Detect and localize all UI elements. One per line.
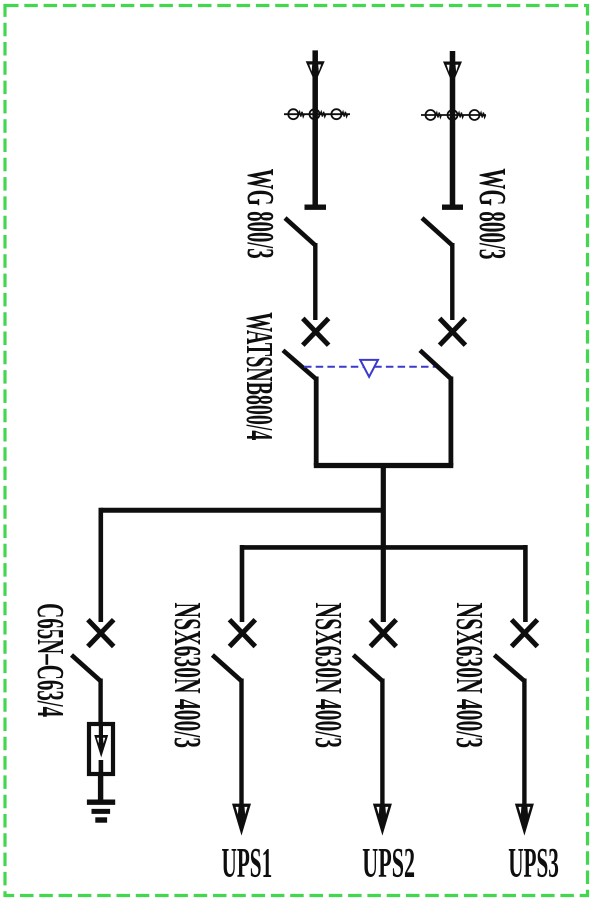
feeder A isolating switch QA blade — [285, 218, 315, 245]
SPD branch switch blade — [72, 655, 101, 681]
wire feeder B switch to breaker — [450, 243, 454, 320]
UPS1 branch drop wire — [240, 545, 245, 622]
SPD branch drop wire — [99, 508, 104, 622]
UPS1 breaker X — [230, 620, 256, 647]
feeder B isolating switch QB blade — [422, 218, 452, 245]
svg-text:C65N–C63/4: C65N–C63/4 — [29, 603, 71, 717]
ATS left blade — [283, 350, 316, 379]
svg-text:WG 800/3: WG 800/3 — [471, 168, 513, 259]
svg-text:UPS3: UPS3 — [508, 841, 559, 887]
UPS2 feed wire and arrow — [373, 679, 392, 836]
wire feeder A switch to breaker — [313, 243, 317, 320]
UPS3 breaker X — [512, 620, 538, 647]
UPS3 branch drop wire — [523, 545, 528, 622]
SPD arrow inside box — [94, 724, 108, 774]
UPS2 branch breaker X — [370, 620, 396, 647]
svg-text:WG 800/3: WG 800/3 — [239, 169, 281, 259]
svg-text:UPS2: UPS2 — [362, 841, 415, 887]
feeder B supply terminal T-bar — [442, 205, 463, 210]
svg-text:UPS1: UPS1 — [222, 841, 273, 887]
feeder A incoming arrow — [306, 50, 325, 207]
feeder B metering CTs (three circles with squiggles) — [421, 110, 486, 120]
wire ATS left to bus — [314, 377, 319, 466]
ground symbol — [87, 802, 115, 820]
SPD (surge arrester) box — [89, 724, 113, 774]
wire SPD box to ground — [98, 774, 103, 801]
bus drop wire (center) — [381, 466, 386, 623]
ATS indicator triangle (blue) — [360, 360, 378, 377]
distribution line 1 (to SPD branch) — [101, 508, 384, 513]
wire ATS right to bus — [448, 377, 453, 466]
UPS3 switch blade — [494, 655, 524, 681]
ATS right blade — [420, 350, 451, 379]
feeder A supply terminal T-bar — [305, 205, 327, 210]
svg-text:NSX630N 400/3: NSX630N 400/3 — [166, 603, 208, 749]
UPS1 feed wire and arrow — [232, 679, 251, 836]
UPS3 feed wire and arrow — [515, 679, 534, 836]
bus bar — [314, 463, 454, 468]
svg-text:WATSNB800/4: WATSNB800/4 — [238, 312, 280, 440]
svg-text:NSX630N 400/3: NSX630N 400/3 — [307, 603, 349, 749]
UPS2 switch blade — [353, 655, 382, 681]
feeder A metering CTs (three circles with squiggles) — [284, 109, 350, 119]
feeder B incoming arrow — [443, 51, 462, 207]
SPD branch breaker X — [88, 620, 114, 647]
wire blade to SPD box — [98, 679, 102, 727]
ATS linkage dashed line (blue) — [304, 366, 439, 368]
distribution line 2 (to UPS1/UPS3) — [242, 545, 525, 550]
UPS1 switch blade — [212, 655, 241, 681]
svg-text:NSX630N 400/3: NSX630N 400/3 — [448, 603, 490, 749]
feeder A breaker contact X — [303, 318, 329, 345]
feeder B breaker contact X — [440, 318, 466, 345]
